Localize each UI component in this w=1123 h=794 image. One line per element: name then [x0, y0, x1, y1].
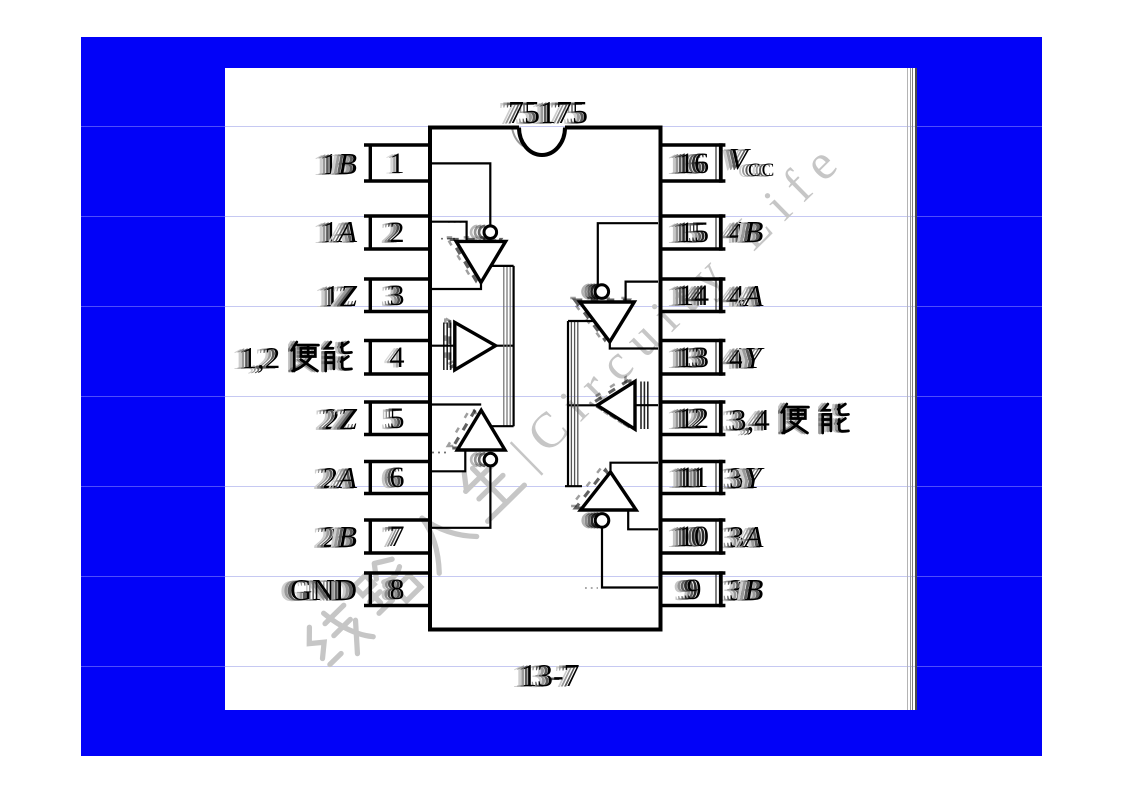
- pin 2 label: [323, 216, 357, 247]
- pin 6 box: [364, 460, 429, 495]
- buffer G2 (3,4 enable, points left): [588, 377, 635, 429]
- pin 10 label: [729, 521, 763, 552]
- blue frame left bar: [81, 68, 225, 756]
- pin 7 box: [364, 518, 429, 554]
- wire pin10 (3A) to inverter D input: [628, 509, 658, 529]
- pin 13 label: [729, 342, 762, 373]
- page edge line 4: [915, 68, 917, 710]
- wire inverter D bubble to pin9 (3B): [602, 527, 658, 588]
- left bus tap to inverter B: [490, 425, 514, 427]
- horizontal guide line 2: [81, 216, 225, 217]
- pin 4 label 1,2 enable: [242, 340, 355, 373]
- pin 4 box: [364, 339, 429, 376]
- pin 2 box: [364, 214, 429, 250]
- IC body U1 outline: [430, 128, 661, 630]
- right bus tap to inverter C: [568, 320, 595, 322]
- wire inverter B output to pin5 (2Z): [431, 403, 481, 405]
- pin 10 box: [660, 518, 725, 554]
- inverter D bubble: [583, 514, 609, 528]
- page edge line 3: [912, 68, 913, 710]
- pin 12 label 3,4 enable: [731, 402, 851, 435]
- wire buffer G1 output to left enable bus: [496, 345, 514, 347]
- pin 1 box: [364, 143, 429, 182]
- pin 16 label Vcc: [729, 143, 775, 186]
- ghost tick marks near pin9 wire: [585, 587, 598, 589]
- left enable bus ghost lines: [504, 266, 510, 426]
- pin 15 label: [729, 216, 763, 247]
- pin 7 label: [323, 521, 357, 552]
- pin 8 number: [375, 575, 419, 605]
- left bus tap to inverter A: [490, 265, 514, 267]
- page edge line 1: [907, 68, 908, 710]
- pin 13 number: [672, 343, 716, 373]
- wire pin14 (4A) to inverter C input: [626, 282, 658, 302]
- pin 13 box: [660, 339, 725, 376]
- blue frame right bar: [917, 68, 1042, 756]
- wire pin6 (2A) to inverter B input: [431, 449, 465, 471]
- pin 16 box: [660, 143, 725, 182]
- pin 9 box: [660, 571, 725, 607]
- inverter C (channel 4, points down): [570, 298, 634, 342]
- pin 9 number: [672, 575, 716, 605]
- ghost tick marks near inverter B: [432, 452, 448, 454]
- pin 14 label: [729, 280, 763, 311]
- wire inverter D output to pin11 (3Y): [611, 463, 659, 473]
- left enable bus main line: [512, 266, 514, 426]
- pin 3 box: [364, 277, 429, 313]
- horizontal guide line 7: [81, 666, 225, 667]
- right bus tap to inverter D: [565, 485, 582, 487]
- right enable bus main line: [567, 321, 569, 486]
- wire pin15 (4B) to inverter C bubble: [598, 223, 658, 285]
- pin 6 number: [375, 463, 419, 493]
- pin 8 box: [364, 571, 429, 607]
- buffer G2 ghost input lines: [641, 382, 648, 430]
- ghost tick marks near pin2 wire: [448, 221, 462, 223]
- pin 1 label: [323, 148, 357, 179]
- horizontal guide line 1: [81, 126, 225, 127]
- inverter A bubble: [471, 226, 497, 239]
- pin 12 box: [660, 400, 725, 436]
- horizontal guide line 3: [81, 306, 225, 307]
- pin 5 label: [324, 403, 357, 434]
- inverter B bubble: [471, 453, 497, 466]
- pin 14 box: [660, 277, 725, 313]
- horizontal guide line 6: [81, 576, 225, 577]
- wire pin4 (1,2 enable) to buffer G1 input: [431, 345, 454, 347]
- page edge line 2: [910, 68, 911, 710]
- watermark 线路人生|Circuity Life: [293, 124, 858, 681]
- IC body top notch: [519, 128, 565, 156]
- wire pin1 (1B) to inverter A bubble: [431, 163, 490, 226]
- caption 13-7: [521, 659, 580, 691]
- pin 16 number: [672, 149, 716, 179]
- buffer G1 (1,2 enable, points right): [445, 318, 495, 370]
- pin 11 label: [729, 462, 762, 493]
- pin 5 box: [364, 400, 429, 436]
- wire buffer G2 output to right enable bus: [568, 404, 597, 406]
- pin 4 number: [375, 343, 419, 373]
- pin 3 label: [324, 280, 357, 311]
- wire inverter B bubble to pin7 (2B): [431, 466, 490, 528]
- right enable bus ghost lines: [571, 321, 577, 486]
- ghost tick marks near inverter A: [441, 238, 456, 240]
- inverter A (channel 1, points down): [447, 237, 506, 282]
- pin 11 box: [660, 460, 725, 495]
- pin 15 number: [672, 218, 716, 248]
- wire pin12 (3,4 enable) to buffer G2 input: [636, 404, 658, 406]
- horizontal guide line 4: [81, 396, 225, 397]
- buffer G1 ghost input lines: [444, 323, 451, 371]
- wire pin2 (1A) to inverter A input: [431, 222, 467, 242]
- title 75175: [508, 96, 588, 128]
- pin 12 number: [672, 404, 716, 434]
- pin 10 number: [672, 522, 716, 552]
- pin 14 number: [672, 281, 716, 311]
- wire inverter C output to pin13 (4Y): [610, 340, 658, 349]
- inverter D (channel 3, points up): [571, 468, 636, 510]
- wire inverter A output to pin3 (1Z): [431, 281, 481, 290]
- blue frame bottom bar: [81, 710, 1042, 756]
- pin 11 number: [672, 463, 716, 493]
- pin 3 number: [375, 281, 419, 311]
- pin 7 number: [375, 522, 419, 552]
- inverter C bubble: [583, 285, 609, 299]
- horizontal guide line 5: [81, 486, 225, 487]
- pin 8 label: [290, 574, 357, 605]
- pin 9 label: [729, 574, 763, 605]
- inverter B (channel 2, points up): [448, 406, 505, 450]
- pin 6 label: [323, 462, 357, 493]
- pin 15 box: [660, 214, 725, 250]
- pin 5 number: [375, 404, 419, 434]
- pin 2 number: [375, 218, 419, 248]
- pin 1 number: [375, 149, 419, 179]
- blue frame top bar: [81, 37, 1042, 68]
